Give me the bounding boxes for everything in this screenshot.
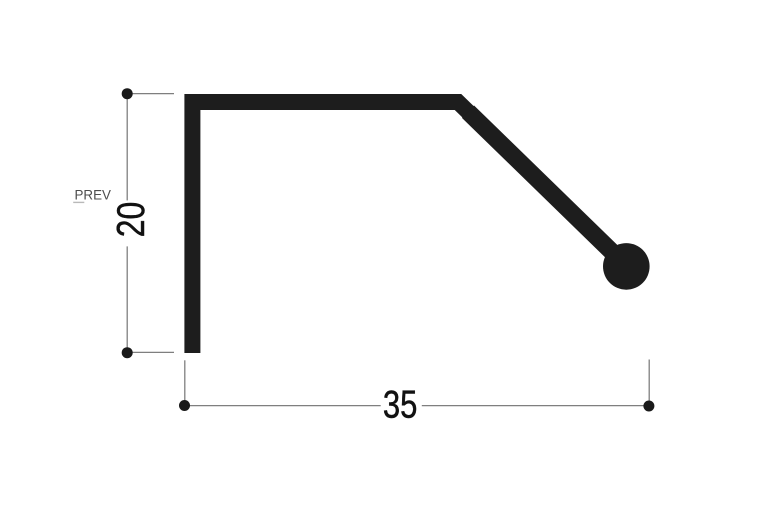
svg-text:35: 35 <box>383 384 418 427</box>
svg-text:20: 20 <box>110 202 153 238</box>
svg-text:PREV: PREV <box>75 187 112 202</box>
